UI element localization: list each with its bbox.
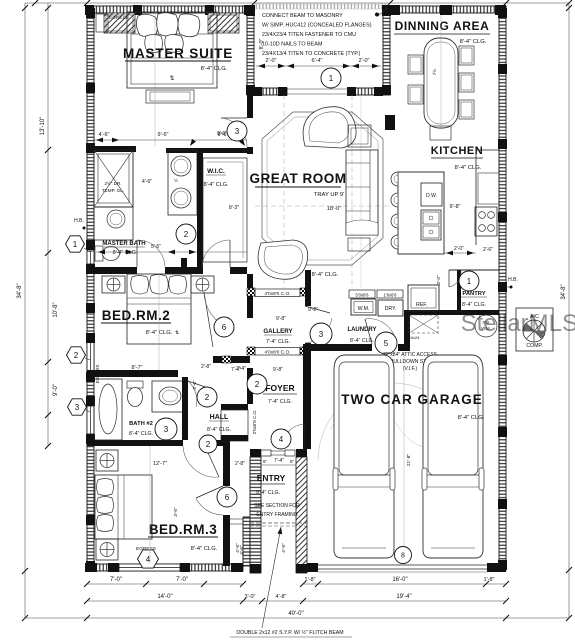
svg-text:2'-8": 2'-8" [235,461,245,467]
svg-text:7'-4": 7'-4" [231,367,241,373]
attic access X box [409,315,438,340]
ac compressor [516,308,553,351]
exterior wall: left [87,8,94,571]
master suite room label [123,46,233,72]
svg-text:2'-0": 2'-0" [454,246,464,252]
svg-text:GREAT ROOM: GREAT ROOM [250,171,347,186]
foyer entry door arc [282,424,305,449]
garage north wall (west part) [303,344,410,351]
svg-text:DINNING AREA: DINNING AREA [395,19,490,33]
svg-text:H.B.: H.B. [74,218,84,224]
svg-text:MASTER SUITE: MASTER SUITE [123,46,233,61]
svg-text:5: 5 [384,339,389,348]
porch opening edge lines [287,89,348,94]
washing machine [351,299,376,315]
foyer west wall lower [247,368,253,404]
entry bottom posts [250,564,307,573]
svg-text:2: 2 [206,440,211,449]
svg-text:3'-6": 3'-6" [173,507,179,517]
svg-text:8'-4" CLG.: 8'-4" CLG. [207,427,231,433]
dishwasher [421,183,442,206]
foyer west wall upper [247,274,253,318]
svg-text:3: 3 [235,127,240,136]
door tag circle 2 (foyer) [247,374,267,394]
gallery label [263,328,293,345]
kitchen dims [444,204,493,255]
great room tray ceiling octagon [262,112,383,265]
svg-text:8'-4" CLG.: 8'-4" CLG. [462,302,486,308]
door tag circle 1 (pantry) [459,271,479,291]
svg-text:W/ SIMP. HUC412 (CONCEALED FLA: W/ SIMP. HUC412 (CONCEALED FLANGES) [262,23,372,29]
bottom dimension row 1 [84,577,509,587]
dining chair bottom [430,126,451,140]
master bath toilet [95,246,120,261]
wic room outline [203,158,247,262]
double vanity (master bath) [168,150,197,215]
bottom dimension row 3 (40ft overall) [25,611,569,621]
wic label [204,168,229,188]
bed2 room label [101,308,179,336]
wic door arc [202,240,230,267]
entry dims [235,458,296,467]
entry north wall + door [250,449,307,457]
svg-text:4'-8": 4'-8" [276,594,287,600]
svg-text:6'-4": 6'-4" [312,58,323,64]
laundry door arc from gallery [305,306,332,343]
bed3 room label [148,522,218,552]
door tag circle 3 (laundry) [310,323,332,345]
svg-text:MASTER BATH: MASTER BATH [102,241,145,247]
svg-text:StellarMLS: StellarMLS [461,310,575,337]
door tag circle 2 (bath) [176,224,196,244]
refrigerator [408,285,439,311]
exterior wall: top (dinning area) [388,5,506,15]
svg-text:(V.I.F.): (V.I.F.) [403,366,418,372]
svg-text:2½" DR.: 2½" DR. [104,180,121,186]
svg-text:CONNECT BEAM TO MASONRY: CONNECT BEAM TO MASONRY [262,13,343,19]
bed3 nightstand lower [96,539,118,560]
svg-text:FOYER: FOYER [265,383,294,393]
svg-text:ENTRY: ENTRY [257,473,286,483]
svg-text:9'-2": 9'-2" [308,307,318,313]
svg-text:TEMP. GL.: TEMP. GL. [102,188,124,193]
bath2 vanity [152,381,187,412]
garage west wall [303,351,311,449]
svg-text:1: 1 [467,277,472,286]
svg-text:REF.: REF. [416,302,427,308]
bed2 door arc (from hall) [204,292,235,347]
door tag circle 4 (entry) [271,429,291,449]
wedge chair top [303,107,356,148]
svg-text:9'-6": 9'-6" [217,131,227,137]
foyer label [263,383,297,405]
bed2 south wall [87,370,178,377]
svg-text:4'-6": 4'-6" [99,132,110,138]
svg-text:8'-4" CLG.: 8'-4" CLG. [129,431,153,437]
entry stoop dashed edge [250,523,307,526]
gallery south wall + cased opening [247,347,308,356]
svg-text:DRY.: DRY. [385,306,397,312]
pantry walls [449,270,499,311]
svg-text:1'6x6'8: 1'6x6'8 [383,293,397,298]
garage front wall + garage door [303,563,506,572]
svg-text:6": 6" [263,459,268,464]
door tag circle 6 (bed3) [217,487,237,507]
bed3 east wall [223,446,230,566]
entry west wall [250,457,261,573]
svg-text:7'-0": 7'-0" [110,577,122,583]
svg-text:4'0x8'0 C.O.: 4'0x8'0 C.O. [264,291,290,297]
svg-text:W.I.C.: W.I.C. [207,168,225,175]
wedge chair bottom [258,240,308,279]
svg-text:3'-0": 3'-0" [245,594,256,600]
svg-text:2: 2 [255,380,260,389]
right wall posts [498,8,507,570]
car 2 [422,355,484,558]
bottom dimension row 2 [84,594,509,604]
bath/bed2 wall (south of master bath) [94,267,247,274]
hall upper walls [213,356,250,363]
svg-text:7'-4" CLG.: 7'-4" CLG. [268,399,292,405]
svg-text:9'-6": 9'-6" [158,132,169,138]
svg-text:12'-7": 12'-7" [153,461,167,467]
garage laundry door arc [365,319,396,344]
svg-text:H.B.: H.B. [508,277,518,283]
svg-text:18'-0": 18'-0" [327,206,342,212]
pantry label [461,291,487,308]
bed3 bed [95,475,152,539]
svg-text:BED.RM.2: BED.RM.2 [102,308,171,323]
master suite dim row [94,132,247,147]
master suite door arc [221,118,247,147]
master suite centerline [154,12,156,146]
svg-text:8'-4" CLG.: 8'-4" CLG. [201,66,228,72]
wic west wall [197,153,203,274]
porch south wall left segment [253,87,287,96]
svg-text:4'-9": 4'-9" [281,543,287,553]
door tag circle 1 (porch) [321,68,341,88]
entry depth dims [235,543,287,553]
entry framing note [254,503,300,518]
svg-text:34'-8": 34'-8" [17,283,23,298]
svg-text:2: 2 [205,393,210,402]
bath2 tag circle 3 [155,418,177,440]
master bath dims [142,179,239,250]
svg-text:1: 1 [73,240,78,249]
svg-text:½: ½ [174,177,178,183]
porch annotation note [262,8,388,57]
bed2 centerline [158,274,160,370]
svg-text:9'-8": 9'-8" [276,316,286,322]
porch right wall [382,5,391,95]
svg-text:PANTRY: PANTRY [462,291,485,297]
bed3 closet strip [230,517,250,566]
svg-text:8: 8 [401,553,405,560]
car 1 [333,355,395,558]
bed3 centerline [149,446,151,564]
svg-text:2'0x6'8 C.O.: 2'0x6'8 C.O. [252,410,257,434]
svg-text:BED.RM.3: BED.RM.3 [149,522,218,537]
hall label [207,414,231,433]
porch dimension row [256,58,381,68]
bath2 tub [94,379,122,440]
svg-text:23/4X13/4 TITEN TO CONCRETE (T: 23/4X13/4 TITEN TO CONCRETE (TYP.) [262,51,361,57]
exterior wall: bottom (bed rm 3) [85,563,243,572]
svg-text:4'0x8'0 C.O.: 4'0x8'0 C.O. [264,350,290,356]
window tag hexagon 3 [68,399,87,415]
dinning area label [394,19,490,45]
sofa [346,150,378,235]
svg-text:1'-8": 1'-8" [305,577,316,583]
flitch beam note [230,527,352,637]
side chair right [348,125,371,147]
svg-text:LAUNDRY: LAUNDRY [347,327,376,333]
svg-text:TRAY UP 9': TRAY UP 9' [314,192,344,198]
bed3 dims [153,461,245,555]
svg-text:KITCHEN: KITCHEN [431,145,483,157]
pantry door arc [449,270,461,287]
svg-text:2: 2 [74,351,79,360]
garage centerline dims [404,355,412,563]
bed2 nightstand right [191,276,214,293]
master bath door arc [137,240,165,267]
svg-text:9'-0": 9'-0" [53,384,59,396]
entry label [256,473,286,496]
svg-text:13'-10": 13'-10" [40,117,46,136]
svg-text:2'-8": 2'-8" [201,364,211,370]
laundry north wall shelf boxes [349,290,403,298]
master suite nightstand left [96,14,108,32]
svg-text:BATH #2: BATH #2 [129,421,153,427]
svg-text:4'-9": 4'-9" [235,543,241,553]
dining chairs left [408,55,423,104]
top dimension line [25,0,572,6]
cooktop [475,207,497,236]
svg-text:6: 6 [225,493,230,502]
svg-text:8'-4" CLG.: 8'-4" CLG. [113,250,138,256]
svg-text:3'-6": 3'-6" [192,380,198,390]
hall west wall [182,377,188,440]
exterior wall: top (master suite) [85,5,254,15]
exterior wall: right [499,8,506,570]
shower (master bath) [94,150,133,207]
svg-text:7'-0": 7'-0" [176,577,188,583]
dining table [424,38,458,128]
svg-text:21'-8": 21'-8" [406,454,412,467]
door tag circle 2 (bed3) [199,435,217,453]
svg-text:COMP.: COMP. [526,343,542,349]
porch roof edge (dashed) [254,4,390,9]
svg-text:1'-8": 1'-8" [484,577,495,583]
svg-text:24x24: 24x24 [409,335,421,340]
garage label [341,392,484,421]
svg-text:2'-6": 2'-6" [483,247,493,253]
hall closet [221,404,257,441]
kitchen island [398,172,444,254]
svg-text:9'-8": 9'-8" [273,367,283,373]
svg-text:2: 2 [184,230,189,239]
svg-text:⇅: ⇅ [169,76,174,82]
svg-text:ENTRY FRAMING: ENTRY FRAMING [256,512,297,518]
kitchen sink double [421,210,441,240]
laundry label [347,327,376,344]
svg-text:8'-4" CLG.: 8'-4" CLG. [191,546,218,552]
master suite window seat right [208,13,239,33]
svg-text:8'-0": 8'-0" [259,38,265,49]
svg-text:9'-8": 9'-8" [450,204,461,210]
entry east wall [296,457,307,573]
kitchen south wall [404,310,499,351]
bed3 closet door arc [196,486,223,515]
master suite east wall [247,95,253,154]
svg-text:9'-4" CLG.: 9'-4" CLG. [256,490,280,496]
great room grid dashed lines [255,95,390,288]
kitchen label [431,145,483,171]
bed3 door arc [183,446,219,477]
bath2 toilet [127,381,143,407]
bar stools [391,172,398,249]
window tag hexagon 1 [66,236,85,252]
svg-text:3: 3 [319,330,324,339]
door tag circle 2 (bath2) [197,387,217,407]
svg-text:3'-0": 3'-0" [436,275,442,285]
svg-text:10-10D NAILS TO BEAM: 10-10D NAILS TO BEAM [262,42,323,48]
bath2 label [129,421,153,437]
right dimension line 34-8 [561,3,572,621]
svg-text:6: 6 [222,323,227,332]
window tag hexagon 2 [67,347,86,363]
svg-text:8'-4" CLG.: 8'-4" CLG. [312,272,339,278]
svg-text:7½: 7½ [431,69,437,76]
left inner dimension line [40,3,59,449]
master suite south wall [94,146,247,153]
left wall posts [86,8,95,571]
black post dining west [385,115,395,130]
great room label [250,171,347,198]
master suite bench at foot of bed [146,90,194,103]
svg-text:8'-4" CLG.: 8'-4" CLG. [460,39,487,45]
kitchen counter right [476,150,499,245]
svg-text:23/4X23/4 TITEN FASTENER TO CM: 23/4X23/4 TITEN FASTENER TO CMU [262,32,356,38]
svg-text:8'-4" CLG.: 8'-4" CLG. [458,415,485,421]
svg-text:7'-4" CLG.: 7'-4" CLG. [266,339,290,345]
window tag hexagon 4 [138,550,159,568]
attic access note [383,352,439,372]
left outer dimension line 34-8 [17,3,28,621]
garage door swing ghost arcs [318,383,470,460]
door tag circle 3 (master) [227,121,247,141]
svg-text:40'-0": 40'-0" [288,611,303,617]
svg-text:4'-6": 4'-6" [142,179,152,185]
svg-text:6": 6" [290,459,295,464]
bed2 east wall upper [181,258,187,274]
master bath bottom dim row [96,250,247,255]
door tag circle 6 (bed2) [214,317,234,337]
garage tag circle 8 [395,547,412,564]
svg-text:5'0x6'8: 5'0x6'8 [355,293,369,298]
left wall windows [87,251,94,434]
hose bib right [506,277,518,289]
water meter circle [475,315,497,337]
bed2 nightstand left [102,276,125,293]
foyer east wall [305,270,311,449]
dining centerline dim [431,15,441,130]
svg-text:3: 3 [75,403,80,412]
master suite bed [127,12,217,88]
svg-text:7'-4": 7'-4" [274,458,284,464]
svg-text:19'-4": 19'-4" [396,594,411,600]
master bath vanity lower-left [94,207,133,240]
svg-text:2'-0": 2'-0" [359,58,370,64]
svg-text:D.W.: D.W. [426,193,437,199]
svg-text:TWO CAR GARAGE: TWO CAR GARAGE [341,392,483,407]
porch south wall right segment [347,87,383,96]
bath2 door arc [188,381,214,407]
svg-text:10'-8": 10'-8" [53,302,59,317]
ottoman [348,238,370,251]
door tag circle 5 (garage) [375,332,397,354]
dining chairs right [459,46,474,119]
bed2 bed [127,274,191,344]
svg-text:16'-0": 16'-0" [392,577,407,583]
svg-text:4: 4 [279,435,284,444]
svg-text:DOUBLE 2x12 #2 S.Y.P. W/ ½" FL: DOUBLE 2x12 #2 S.Y.P. W/ ½" FLITCH BEAM [236,629,343,636]
svg-text:⇅: ⇅ [175,330,179,336]
gallery north wall + cased opening [247,288,308,297]
svg-text:GALLERY: GALLERY [263,328,293,335]
master suite window seat left (egress) [104,13,135,33]
svg-text:HALL: HALL [210,414,229,421]
svg-text:3: 3 [164,425,169,434]
bed3 nightstand upper [96,450,118,471]
svg-text:1: 1 [329,74,334,83]
svg-text:EGRESS: EGRESS [109,15,129,21]
porch left wall [246,5,255,95]
svg-text:8'-3": 8'-3" [229,205,239,211]
svg-text:14'-0": 14'-0" [157,594,172,600]
svg-text:8'-4" CLG.: 8'-4" CLG. [455,165,482,171]
master bath label [102,241,145,256]
svg-text:2'-0": 2'-0" [266,58,277,64]
hose bib left [74,218,85,230]
svg-text:SEE SECTION FOR: SEE SECTION FOR [254,503,300,509]
dryer [378,300,403,316]
svg-text:34'-8": 34'-8" [561,284,567,299]
svg-text:8'-4" CLG.: 8'-4" CLG. [204,182,229,188]
hall south wall (bed3 north) [87,440,230,446]
svg-text:W.M.: W.M. [358,306,370,312]
